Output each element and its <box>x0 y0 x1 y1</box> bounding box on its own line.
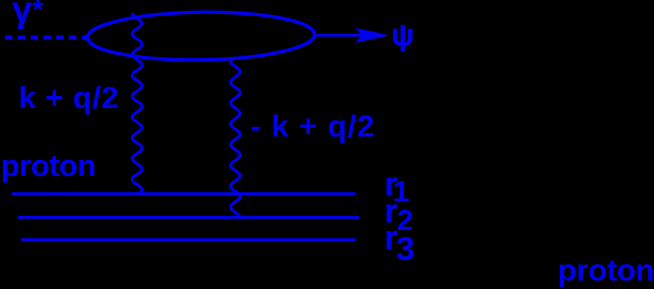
svg-text:- k + q/2: - k + q/2 <box>251 109 376 144</box>
svg-text:*: * <box>33 0 44 25</box>
svg-text:proton: proton <box>558 252 654 287</box>
svg-text:3: 3 <box>396 230 414 267</box>
svg-text:proton: proton <box>1 148 96 183</box>
svg-text:k + q/2: k + q/2 <box>19 80 120 115</box>
svg-text:γ: γ <box>12 0 32 30</box>
svg-text:ψ: ψ <box>391 18 414 52</box>
